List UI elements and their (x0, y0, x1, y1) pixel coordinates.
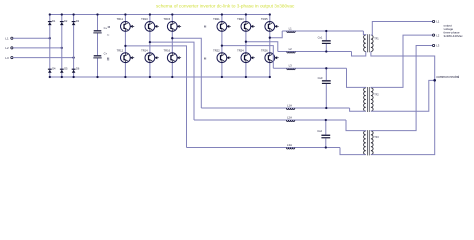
input terminal L2 (5, 46, 13, 50)
transistor TR16 (164, 48, 182, 62)
node rectifier leg 1 bottom (49, 76, 51, 78)
inductor L3 choke (287, 64, 295, 70)
node DC link top (96, 13, 98, 15)
transistor TR12 (117, 48, 135, 62)
svg-text:TR12: TR12 (117, 48, 124, 52)
node TR11 collector rail (124, 13, 126, 15)
svg-text:TF1: TF1 (374, 38, 379, 41)
transistor TR24 (237, 48, 255, 62)
svg-text:Cs2: Cs2 (317, 129, 322, 133)
svg-text:TR25: TR25 (261, 17, 268, 21)
transistor TR23 (237, 17, 255, 31)
node TR14 emitter rail (149, 76, 151, 78)
svg-text:D3: D3 (76, 19, 80, 23)
capacitor C+ lower (93, 52, 110, 62)
transistor TR15 (164, 17, 182, 31)
node L3 phase tap (221, 44, 223, 46)
svg-text:TF3: TF3 (374, 136, 379, 139)
node TR26 emitter rail (269, 76, 271, 78)
transistor TR13 (141, 17, 159, 31)
svg-text:L3: L3 (289, 64, 293, 68)
node TR25 collector rail (269, 13, 271, 15)
capacitor Cs1 (318, 30, 331, 53)
svg-text:L1: L1 (436, 20, 440, 24)
node rectifier leg 2 bottom (61, 76, 63, 78)
node rectifier leg 3 bottom (72, 76, 74, 78)
title text (156, 4, 295, 9)
node TR24 emitter rail (245, 76, 247, 78)
wire DC link bus (97, 15, 99, 78)
wire rectifier leg 2 (61, 15, 63, 78)
output terminal L2 (433, 33, 440, 37)
wire TF3 primary top from L2A (346, 120, 366, 131)
svg-text:D5: D5 (64, 67, 68, 71)
svg-text:L1A: L1A (287, 103, 292, 107)
svg-text:TR15: TR15 (164, 17, 171, 21)
svg-text:Cs1: Cs1 (318, 36, 323, 40)
wire L3 phase from TR21 (222, 46, 273, 69)
wire half-bridge leg TR13/TR14 (149, 15, 151, 78)
wire TF3 secondary top to output L3 (371, 46, 433, 131)
node TR22 emitter rail (221, 76, 223, 78)
wire half-bridge leg TR23/TR24 (245, 15, 247, 78)
transformer TF1 (364, 34, 380, 52)
svg-text:Cs0: Cs0 (318, 76, 323, 80)
wire input L2 (13, 47, 62, 49)
wire DC + rail (50, 14, 270, 16)
node rectifier leg 3 top (72, 13, 74, 15)
capacitor Cs0 (318, 67, 331, 109)
svg-text:D2: D2 (64, 19, 68, 23)
wire L2A phase wire (150, 42, 194, 120)
wire line L1A (201, 107, 349, 109)
wire line L2A (194, 119, 346, 121)
svg-text:M: M (204, 57, 207, 61)
svg-text:L1: L1 (5, 37, 9, 41)
wire half-bridge leg TR15/TR16 (171, 15, 173, 78)
transistor TR26 (261, 48, 279, 62)
wire rectifier leg 3 (73, 15, 75, 78)
capacitor C+ upper (93, 26, 110, 36)
svg-text:L2: L2 (5, 46, 9, 50)
node common neutral (433, 75, 459, 82)
transistor TR21 (213, 17, 231, 31)
wire TF1 primary bottom (352, 52, 366, 57)
capacitor Cs2 (317, 119, 330, 149)
wire line L3 (273, 67, 346, 69)
wire input L1 (13, 37, 50, 39)
wire TF1 secondary bottom to neutral (371, 52, 435, 81)
svg-text:TR22: TR22 (213, 48, 220, 52)
svg-text:TR21: TR21 (213, 17, 220, 21)
output terminal L3 (433, 44, 440, 48)
svg-text:TF2: TF2 (374, 94, 379, 97)
wire TF3 secondary bottom to neutral (371, 80, 435, 154)
wire rectifier leg 1 (49, 15, 51, 78)
wire L1 phase from TR25 (270, 31, 282, 38)
node input L1 to rectifier (49, 37, 51, 39)
node TR15 collector rail (171, 13, 173, 15)
wire TF2 primary top from L3 (347, 68, 366, 88)
node TR12 emitter rail (124, 76, 126, 78)
wire half-bridge leg TR11/TR12 (124, 15, 126, 78)
wire L3A phase wire (125, 46, 186, 148)
svg-text:L3: L3 (436, 44, 440, 48)
wire half-bridge leg TR25/TR26 (269, 15, 271, 78)
wire TF1 primary top (363, 31, 365, 35)
svg-text:common neutral: common neutral (436, 75, 459, 79)
note output voltage (444, 23, 464, 38)
svg-text:L1: L1 (289, 26, 293, 30)
label module M group2 bottom (204, 57, 207, 61)
label module M group1 top (108, 25, 111, 29)
svg-text:D1: D1 (52, 19, 56, 23)
inductor L1A choke (286, 103, 294, 109)
node L1A phase wire tap (171, 37, 173, 39)
diode D1 (48, 19, 56, 25)
node L1 phase tap (269, 37, 271, 39)
svg-text:L2A: L2A (287, 115, 292, 119)
wire line L1 (282, 30, 363, 32)
svg-text:M: M (108, 25, 111, 29)
node DC link bottom (96, 76, 98, 78)
wire L2 phase from TR23 (246, 42, 278, 52)
transistor TR25 (261, 17, 279, 31)
node TR16 emitter rail (171, 76, 173, 78)
label module M group2 top (204, 25, 207, 29)
svg-text:TR23: TR23 (237, 17, 244, 21)
diode D2 (60, 19, 68, 25)
node TR13 collector rail (149, 13, 151, 15)
svg-text:M: M (204, 25, 207, 29)
inductor L3A choke (286, 143, 294, 149)
svg-text:L3A: L3A (287, 143, 292, 147)
svg-text:D6: D6 (76, 67, 80, 71)
transistor TR14 (141, 48, 159, 62)
svg-text:C+: C+ (104, 52, 108, 56)
diode D6 (72, 67, 80, 73)
wire TF1 secondary top to output L1 (371, 22, 433, 36)
wire L1A phase wire (172, 38, 201, 108)
diode D5 (60, 67, 68, 73)
node TR21 collector rail (221, 13, 223, 15)
diode D4 (48, 67, 56, 73)
svg-text:L2: L2 (289, 47, 293, 51)
wire DC - rail (50, 76, 270, 78)
svg-text:TR16: TR16 (164, 48, 171, 52)
wire TF2 secondary bottom to neutral (371, 80, 434, 111)
svg-text:TR11: TR11 (117, 17, 124, 21)
svg-text:TR24: TR24 (237, 48, 244, 52)
output terminal L1 (433, 20, 440, 24)
node rectifier leg 2 top (61, 13, 63, 15)
node input L2 to rectifier (61, 47, 63, 49)
svg-text:M: M (107, 57, 110, 61)
transistor TR22 (213, 48, 231, 62)
svg-text:schema of converter invertor d: schema of converter invertor dc-link to … (156, 4, 295, 9)
wire line L3A (187, 147, 341, 149)
svg-text:TR13: TR13 (141, 17, 148, 21)
node L2A phase wire tap (149, 41, 151, 43)
node rectifier leg 1 top (49, 13, 51, 15)
svg-text:TR14: TR14 (141, 48, 148, 52)
wire half-bridge leg TR21/TR22 (221, 15, 223, 78)
svg-text:L3: L3 (5, 56, 9, 60)
svg-text:3x380-440Vac: 3x380-440Vac (444, 34, 464, 38)
wire TF2 primary bottom from L1A (350, 108, 366, 111)
node L2 phase tap (245, 41, 247, 43)
diode D3 (72, 19, 80, 25)
transformer TF3 (364, 130, 380, 155)
node TR23 collector rail (245, 13, 247, 15)
wire input L3 (13, 57, 74, 59)
transistor TR11 (117, 17, 135, 31)
inductor L2A choke (286, 115, 294, 121)
wire TF2 secondary top to output L2 (371, 35, 433, 88)
node input L3 to rectifier (72, 56, 74, 58)
inductor L1 choke (287, 26, 295, 32)
node L3A phase wire tap (124, 45, 126, 47)
input terminal L1 (5, 37, 13, 41)
transformer TF2 (364, 87, 380, 112)
label module M group1 bottom (107, 57, 110, 61)
wire TF3 primary bottom from L3A (340, 148, 366, 155)
svg-text:TR26: TR26 (261, 48, 268, 52)
svg-text:L2: L2 (436, 33, 440, 37)
input terminal L3 (5, 56, 13, 60)
wire line L2 (278, 51, 352, 53)
svg-text:D4: D4 (52, 67, 56, 71)
inductor L2 choke (287, 47, 295, 53)
